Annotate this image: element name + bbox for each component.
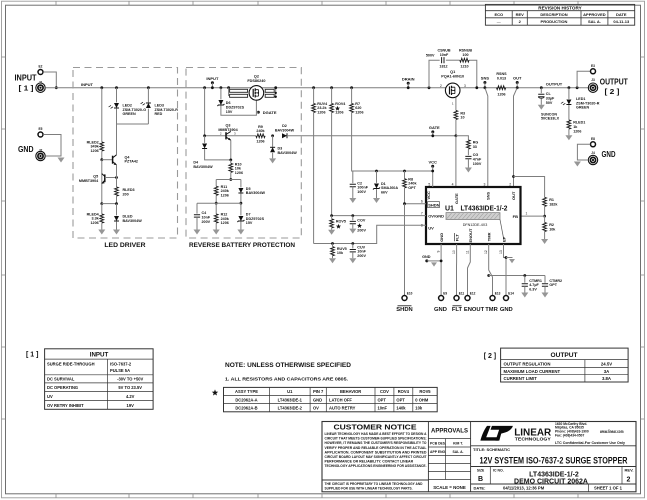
svg-text:50CE33LX: 50CE33LX [541, 117, 560, 121]
svg-text:4: 4 [452, 182, 454, 186]
svg-text:APPLICATION. COMPONENT SUBSTIT: APPLICATION. COMPONENT SUBSTITUTION AND … [325, 450, 427, 454]
transistor Q5 MMBT3904 [104, 174, 106, 182]
diode D4 BAV3004W [204, 136, 206, 143]
resistor R9 240k [256, 134, 265, 138]
label VCC [431, 165, 434, 168]
dashed box LED DRIVER [73, 68, 178, 239]
svg-text:DFN12DE-4X3: DFN12DE-4X3 [463, 223, 488, 227]
wire TMR to timer caps [489, 275, 545, 277]
ground D1 [373, 198, 380, 203]
wire RLED3 to junction [116, 196, 118, 204]
svg-text:CIRCUIT THAT MEETS CUSTOMER-SU: CIRCUIT THAT MEETS CUSTOMER-SUPPLIED SPE… [325, 437, 427, 441]
svg-text:OUT: OUT [511, 191, 516, 200]
svg-text:200V: 200V [357, 229, 366, 233]
svg-text:GATE: GATE [454, 193, 459, 204]
node Q5 base B [115, 176, 118, 179]
title rows [471, 445, 636, 447]
capacitor C2 100nF [352, 171, 354, 183]
terminal E8 [591, 142, 596, 147]
svg-text:3A: 3A [604, 369, 610, 374]
table INPUT [45, 349, 154, 410]
node rail 204 [203, 86, 206, 89]
svg-text:1206: 1206 [235, 171, 243, 175]
wire R2 ground [544, 232, 546, 239]
svg-text:MAXIMUM LOAD CURRENT: MAXIMUM LOAD CURRENT [504, 369, 561, 374]
svg-text:LED DRIVER: LED DRIVER [104, 242, 145, 249]
svg-text:ROV5: ROV5 [336, 219, 346, 223]
svg-text:www.linear.com: www.linear.com [599, 429, 623, 434]
ground D3 [269, 158, 276, 163]
ground CG [465, 168, 472, 173]
svg-text:10: 10 [452, 250, 456, 254]
wire Q2 left pads [228, 88, 230, 96]
wire RLED1 ground [568, 129, 570, 135]
node Q4 base [100, 158, 103, 161]
wire RLED2 to Q4 base [101, 151, 103, 160]
wire R7 down to VCC rail [352, 113, 433, 171]
ground CL [538, 105, 545, 110]
svg-text:0.013: 0.013 [497, 77, 506, 81]
wire OUT to R1 [514, 177, 545, 198]
svg-text:J4: J4 [591, 151, 595, 155]
wire Q5 base to RLED3 node [105, 177, 117, 179]
jack J3 OUTPUT [588, 83, 597, 92]
node base row left [203, 134, 206, 137]
svg-text:U1: U1 [287, 389, 293, 394]
wire R1 to FB node [544, 207, 546, 217]
svg-text:ASSY TYPE: ASSY TYPE [235, 389, 258, 394]
svg-text:OV/GND: OV/GND [428, 214, 444, 219]
svg-text:DRAIN: DRAIN [402, 76, 415, 81]
wire C2 ground [352, 187, 354, 198]
svg-text:200: 200 [123, 193, 129, 197]
node A-B join [100, 202, 103, 205]
node R9-D2 [271, 134, 274, 137]
svg-text:TMR: TMR [487, 232, 492, 241]
node J3 stub [576, 86, 579, 89]
transistor Q3 MMBT3904 [225, 132, 227, 139]
svg-text:15V: 15V [226, 110, 233, 114]
svg-text:50V: 50V [546, 101, 553, 105]
svg-text:1812: 1812 [439, 64, 447, 68]
svg-text:MMBT3904: MMBT3904 [79, 179, 99, 183]
capacitor CTMR1 4.7uF [523, 274, 526, 277]
svg-text:FDS86240: FDS86240 [247, 79, 265, 83]
svg-text:IC NO.: IC NO. [493, 468, 504, 472]
svg-text:DC2062A-B: DC2062A-B [235, 405, 257, 410]
svg-text:33: 33 [473, 145, 477, 149]
node snubber right [475, 86, 478, 89]
node R10 bottom [229, 178, 232, 181]
wire R11 to row 203 [215, 195, 217, 203]
wire ROV4 down to OV net [331, 113, 333, 216]
svg-text:ECO: ECO [494, 12, 503, 17]
svg-text:GND: GND [434, 307, 447, 313]
node OUT-R1 branch [512, 175, 515, 178]
svg-text:CUSTOMER NOTICE: CUSTOMER NOTICE [334, 422, 417, 431]
svg-text:3.8A: 3.8A [602, 376, 611, 381]
customer notice box [427, 422, 429, 492]
resistor R8 240k OPT [404, 171, 406, 179]
wire D1 ground [376, 189, 378, 198]
wire D7 ground [240, 222, 242, 230]
svg-text:GND: GND [439, 233, 444, 242]
svg-text:FLT: FLT [454, 234, 459, 242]
svg-text:19V: 19V [127, 403, 135, 408]
svg-text:REV.: REV. [625, 467, 634, 472]
svg-text:100V: 100V [357, 190, 366, 194]
node UV RUV5 [331, 242, 334, 245]
svg-text:BAV3004W: BAV3004W [246, 191, 266, 195]
svg-text:OUTPUT: OUTPUT [550, 352, 577, 359]
ground C4 [194, 230, 201, 235]
ground D7 [237, 230, 244, 235]
wire junction row LED [102, 203, 117, 205]
ground R12 [213, 230, 220, 235]
svg-text:SUPPLIED FOR USE WITH LINEAR T: SUPPLIED FOR USE WITH LINEAR TECHNOLOGY … [325, 487, 413, 491]
svg-text:U1: U1 [445, 205, 454, 212]
svg-text:PQA1-60N10: PQA1-60N10 [441, 75, 464, 79]
node TMR junction [487, 274, 490, 277]
svg-text:1210: 1210 [460, 64, 468, 68]
capacitor C4 10nF [196, 203, 198, 213]
wire C4 ground [196, 217, 198, 229]
svg-text:FLT: FLT [452, 307, 463, 313]
wire column A upper [101, 88, 103, 142]
capacitor CSNUB 10nF 1812 [442, 57, 444, 63]
wire to E3 [577, 71, 590, 87]
diode DLED BAV3004W [116, 204, 118, 216]
wire snubber loop [429, 60, 440, 87]
svg-text:J3: J3 [591, 78, 595, 82]
terminal E2 [38, 70, 43, 75]
svg-text:10nF: 10nF [440, 53, 449, 57]
svg-text:E11: E11 [459, 292, 465, 296]
node input junction [55, 86, 58, 89]
svg-text:2: 2 [509, 182, 511, 186]
svg-text:[ 2 ]: [ 2 ] [605, 87, 621, 96]
svg-text:GREEN: GREEN [123, 112, 136, 116]
wire LED1 to RLED1 [568, 105, 570, 120]
svg-text:TECHNOLOGY APPLICATIONS ENGINE: TECHNOLOGY APPLICATIONS ENGINEERING FOR … [325, 464, 427, 468]
svg-text:2: 2 [220, 132, 222, 136]
svg-text:SNS: SNS [485, 191, 490, 200]
svg-text:KIM T.: KIM T. [453, 442, 463, 446]
svg-text:11: 11 [466, 250, 470, 254]
svg-text:Fax: (408)434-0507: Fax: (408)434-0507 [555, 433, 584, 437]
svg-text:BAV3004W: BAV3004W [123, 219, 143, 223]
node B junction [115, 202, 118, 205]
svg-text:E8: E8 [591, 137, 595, 141]
svg-text:TITLE: SCHEMATIC: TITLE: SCHEMATIC [473, 447, 510, 452]
svg-text:ENOUT: ENOUT [468, 228, 473, 243]
svg-text:OUTPUT: OUTPUT [546, 81, 563, 86]
wire SHDN line [405, 203, 427, 205]
svg-text:10k: 10k [549, 228, 556, 232]
capacitor CG 47nF [465, 156, 471, 158]
wire CL ground [540, 99, 542, 105]
wire EP ground stub [506, 257, 513, 259]
svg-text:1. ALL RESISTORS AND CAPACITOR: 1. ALL RESISTORS AND CAPACITORS ARE 0805… [225, 377, 348, 382]
svg-text:100: 100 [462, 53, 468, 57]
svg-text:HOWEVER, IT REMAINS THE CUSTOM: HOWEVER, IT REMAINS THE CUSTOMER'S RESPO… [325, 441, 427, 445]
node rail-B [115, 86, 118, 89]
resistor RLED3 [115, 187, 119, 196]
resistor RSNS 0.013 [497, 86, 506, 90]
svg-text:ENOUT: ENOUT [464, 307, 485, 313]
svg-text:E2: E2 [39, 65, 43, 69]
wire RUV4 down to UV net [313, 113, 315, 244]
terminal E13 [490, 296, 495, 301]
svg-text:VCC: VCC [426, 191, 431, 200]
wire D6 to DGATE [221, 100, 257, 115]
svg-text:VERIFY PROPER AND RELIABLE OPE: VERIFY PROPER AND RELIABLE OPERATION IN … [325, 446, 428, 450]
table OUTPUT [501, 348, 628, 382]
svg-text:ROV4: ROV4 [398, 389, 410, 394]
node RUV4 rail [312, 86, 315, 89]
svg-text:FB: FB [513, 214, 518, 219]
wire R3 to gate line [455, 120, 457, 136]
svg-text:REV: REV [516, 12, 525, 17]
diode LED3 ZSM-T3020-R [147, 88, 149, 103]
svg-text:10k: 10k [415, 405, 423, 410]
node Q2 right rail [274, 86, 277, 89]
svg-text:1206: 1206 [221, 194, 229, 198]
svg-text:OPT: OPT [378, 397, 387, 402]
svg-text:LATCH OFF: LATCH OFF [329, 397, 352, 402]
svg-text:04/11/2013, 12:36 PM: 04/11/2013, 12:36 PM [503, 486, 545, 491]
svg-text:1206: 1206 [256, 140, 264, 144]
svg-text:CURRENT LIMIT: CURRENT LIMIT [504, 376, 538, 381]
wire R12 ground [215, 223, 217, 229]
svg-text:SHDN: SHDN [396, 307, 412, 313]
svg-text:GND: GND [500, 307, 513, 313]
wire UV line [314, 225, 426, 243]
svg-text:1: 1 [526, 211, 528, 215]
svg-text:INPUT: INPUT [81, 82, 94, 87]
ground RLED4 [98, 230, 105, 235]
svg-text:DC SURVIVAL: DC SURVIVAL [47, 377, 75, 382]
resistor R1 182k [543, 197, 547, 206]
revision history table [485, 4, 634, 25]
node gate junction [455, 134, 458, 137]
label SNS [483, 81, 486, 84]
ground C2 [349, 198, 356, 203]
svg-text:ROV4: ROV4 [335, 102, 346, 106]
ground RLED1 [565, 135, 572, 140]
node EP gnd [505, 256, 508, 259]
svg-text:4.2V: 4.2V [126, 394, 135, 399]
diode LED2 ZSM-T3020-G [114, 103, 119, 108]
wire TMR pin to E13 [489, 244, 493, 296]
wire E5/J2 to ground [43, 135, 61, 157]
svg-text:2: 2 [440, 84, 442, 88]
svg-text:SNS: SNS [481, 76, 490, 81]
resistor R2 10k [544, 216, 546, 222]
svg-text:PZTA42: PZTA42 [125, 160, 138, 164]
svg-text:OUTPUT REGULATION: OUTPUT REGULATION [504, 361, 551, 366]
ground COV [352, 224, 354, 229]
ground GND pin [431, 262, 437, 266]
wire gate line to RG [456, 136, 469, 140]
diode D3 BAV3004W [272, 136, 274, 147]
node R8 vcc [403, 170, 406, 173]
svg-text:12: 12 [484, 250, 488, 254]
wire ENOUT pin to E12 [468, 244, 471, 296]
svg-text:GND: GND [313, 397, 322, 402]
svg-text:OPT: OPT [549, 283, 557, 287]
node OV ROV5 [330, 214, 333, 217]
wire Q3 emitter down [230, 140, 232, 160]
node LED1 rail [568, 86, 571, 89]
wire OV line [332, 215, 426, 217]
svg-text:E10: E10 [407, 292, 413, 296]
wire CG ground [467, 159, 469, 168]
svg-text:SAL A.: SAL A. [453, 450, 464, 454]
wire EP pin down [504, 244, 507, 296]
svg-text:24.5V: 24.5V [601, 361, 612, 366]
svg-text:UV: UV [428, 226, 434, 231]
svg-text:DC2062A-A: DC2062A-A [235, 397, 257, 402]
svg-text:BEHAVIOR: BEHAVIOR [340, 389, 361, 394]
node R10 top [229, 159, 232, 162]
node ROV4 rail [330, 86, 333, 89]
ground ROV5 [331, 227, 333, 230]
table assembly options [224, 387, 438, 411]
node rail-A [100, 86, 103, 89]
wire D2 to gate line [287, 135, 456, 137]
svg-text:NOTE: UNLESS OTHERWISE SPECIFI: NOTE: UNLESS OTHERWISE SPECIFIED [225, 362, 351, 369]
svg-text:COV: COV [357, 219, 366, 223]
resistor R11 240k [215, 180, 217, 187]
svg-text:OV RETRY INHIBIT: OV RETRY INHIBIT [47, 403, 84, 408]
Linear Technology logo [480, 426, 499, 441]
svg-text:DC OPERATING: DC OPERATING [47, 385, 78, 390]
wire left column down [204, 88, 206, 136]
diode D5 BAV3004W [240, 180, 242, 188]
terminal E5 [38, 132, 43, 137]
svg-text:E12: E12 [470, 292, 476, 296]
jack J1 INPUT [36, 83, 45, 92]
resistor RUV5 10k [332, 244, 334, 247]
svg-text:E5: E5 [39, 127, 43, 131]
svg-text:200V: 200V [357, 254, 366, 258]
node snubber left [428, 86, 431, 89]
wire VCC pin [432, 166, 434, 187]
assembly option star [212, 389, 218, 395]
svg-text:1206: 1206 [335, 110, 343, 114]
svg-text:-30V TO +50V: -30V TO +50V [117, 377, 143, 382]
node R7 rail [350, 86, 353, 89]
diode D2 BAV3004W [282, 133, 287, 138]
wire OUT to chip [514, 88, 518, 187]
node rail-C [147, 86, 150, 89]
svg-text:OUTPUT: OUTPUT [600, 77, 628, 86]
svg-text:1206: 1206 [90, 149, 98, 153]
svg-text:1: 1 [452, 102, 454, 106]
svg-text:E13: E13 [495, 292, 501, 296]
svg-text:GND: GND [18, 144, 34, 154]
terminal E11 [454, 296, 459, 301]
svg-text:ISO-7637-2: ISO-7637-2 [110, 362, 132, 367]
node CL rail [540, 86, 543, 89]
node SNS rail [484, 86, 487, 89]
resistor RUV4 23.2k [313, 88, 315, 104]
wire Q4 base stub [102, 159, 113, 161]
wire row 179 [216, 179, 241, 181]
ground CUV [352, 252, 354, 258]
svg-text:SURGE RIDE-THROUGH: SURGE RIDE-THROUGH [47, 362, 95, 367]
wire D4 to Q3 emitter [205, 149, 231, 160]
svg-text:GND: GND [422, 255, 431, 259]
node DGATE [257, 111, 260, 114]
svg-text:J2: J2 [39, 149, 43, 153]
svg-text:LT4363IDE-1: LT4363IDE-1 [278, 397, 303, 402]
resistor ROV5 [331, 216, 333, 219]
resistor RLED2 [100, 142, 104, 151]
svg-text:BAV3004W: BAV3004W [193, 165, 213, 169]
svg-text:REVERSE BATTERY PROTECTION: REVERSE BATTERY PROTECTION [189, 242, 295, 249]
svg-text:GREEN: GREEN [576, 106, 589, 110]
svg-text:B: B [478, 476, 483, 483]
svg-text:13: 13 [499, 250, 503, 254]
svg-text:1206: 1206 [317, 110, 325, 114]
wire RLED4 to ground [101, 223, 103, 229]
svg-text:APPROVED: APPROVED [583, 12, 606, 17]
svg-text:3: 3 [464, 84, 466, 88]
wire column A to Q5 [101, 160, 103, 204]
wire FB line [521, 215, 545, 217]
svg-text:2: 2 [519, 19, 522, 24]
svg-text:INPUT: INPUT [206, 76, 219, 81]
node OUT rail [516, 86, 519, 89]
terminal E10 [402, 296, 407, 301]
terminal E12 [465, 296, 470, 301]
svg-text:DESCRIPTION: DESCRIPTION [540, 12, 567, 17]
svg-text:1206: 1206 [355, 110, 363, 114]
resistor R3 10 [454, 110, 458, 119]
svg-text:1206: 1206 [497, 93, 505, 97]
title block outline [322, 422, 636, 492]
svg-text:TMR: TMR [485, 307, 498, 313]
svg-text:E3: E3 [591, 64, 595, 68]
svg-text:9: 9 [436, 251, 440, 253]
net label INPUT 2 [211, 81, 214, 84]
svg-text:OUT: OUT [513, 76, 522, 81]
node D6 rail [220, 86, 223, 89]
svg-text:E14: E14 [508, 292, 514, 296]
svg-text:PERFORMANCE OR RELIABILITY. C: PERFORMANCE OR RELIABILITY. CONTACT LINE… [325, 459, 414, 463]
svg-text:OPT: OPT [396, 397, 405, 402]
wire B column to Q4 [116, 124, 118, 155]
svg-text:CIRCUIT BOARD LAYOUT MAY SIGNI: CIRCUIT BOARD LAYOUT MAY SIGNIFICANTLY A… [325, 455, 428, 459]
ground EP [509, 259, 515, 263]
svg-text:15V: 15V [246, 221, 253, 225]
svg-text:OV: OV [313, 405, 319, 410]
node OV COV [351, 214, 354, 217]
resistor R12 240k [215, 203, 217, 214]
svg-text:UV: UV [47, 394, 53, 399]
svg-text:ROV5: ROV5 [419, 389, 431, 394]
node D5 bottom [240, 202, 243, 205]
transistor Q2 FDS86240 mosfet [249, 86, 264, 101]
wire Q2 right to rail [275, 88, 277, 97]
node R11 bottom [215, 202, 218, 205]
svg-text:APPROVALS: APPROVALS [431, 428, 468, 434]
svg-text:LTC Confidential-For Customer: LTC Confidential-For Customer Use Only [555, 441, 625, 445]
svg-text:REVISION HISTORY: REVISION HISTORY [538, 5, 581, 10]
svg-text:Q1: Q1 [450, 70, 455, 74]
